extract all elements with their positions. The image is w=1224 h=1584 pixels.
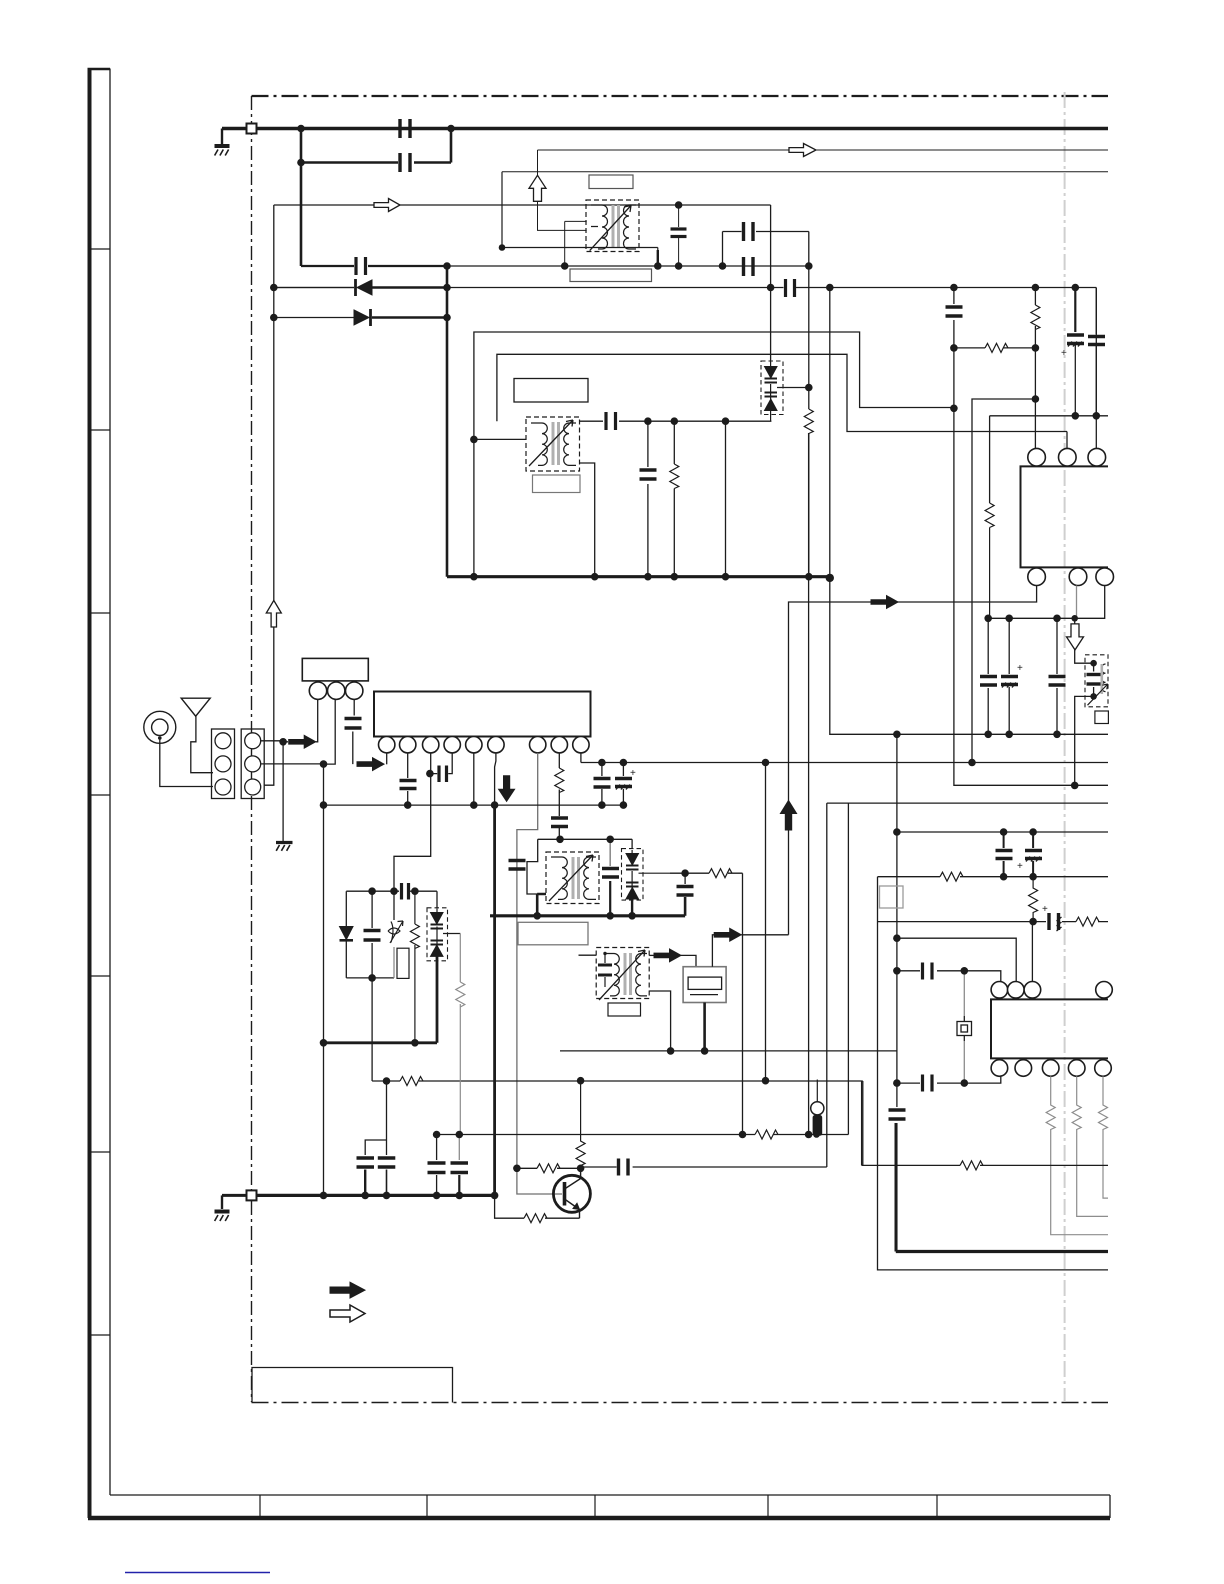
arrow solid up x788 — [780, 800, 796, 830]
dual diode D3 stack — [761, 361, 809, 421]
capacitor C29 x610 — [609, 839, 611, 866]
capacitor C9 shunt — [647, 421, 649, 577]
arrow solid right to U4 pin1 — [357, 758, 384, 771]
wire y891 row — [346, 891, 437, 908]
TUNERINPUT — [144, 658, 636, 1195]
wire IF loop outer — [474, 332, 954, 439]
wire vertical x301 thick — [300, 129, 303, 267]
capacitor C22 — [345, 719, 362, 729]
resistor R6 y877 — [940, 872, 963, 881]
PAGEFRAME — [88, 68, 1111, 1518]
wire y205 into T1 continues via x770 — [770, 205, 772, 363]
wire x1035 pin — [1034, 348, 1036, 449]
wire y978 row — [346, 977, 394, 979]
wire y399 jog — [972, 399, 1035, 763]
wire y618 caps row — [987, 618, 989, 734]
T4 secondary coil — [636, 954, 647, 996]
resistor R9 drop — [1046, 1076, 1108, 1234]
label box below T4 — [608, 1003, 641, 1016]
wire IF left thick vertical — [447, 575, 830, 578]
resistor R15 y1134 — [755, 1130, 778, 1139]
wire x848 drop — [847, 803, 849, 1134]
wire y602 left — [789, 602, 872, 935]
wire J1 to connector — [160, 738, 213, 787]
filter top lead2 — [712, 935, 716, 967]
wire T1 feed from y150 — [538, 150, 587, 266]
arrow solid down x506 — [499, 776, 515, 802]
legend arrow open — [330, 1305, 365, 1322]
capacitor C35 y1167 — [619, 1159, 629, 1176]
wire main thick top rail — [222, 127, 1108, 130]
connector CN2 — [241, 729, 264, 799]
capacitor C31 x436 — [436, 1135, 438, 1196]
connector CN1 — [212, 729, 235, 799]
wire y1080 rail — [372, 978, 863, 1166]
IC U2 top pins — [991, 982, 1008, 999]
wire y247 loop — [502, 172, 658, 266]
IC U1 top pin circles — [1028, 448, 1046, 466]
wire x386 drop — [365, 1081, 386, 1155]
filter FL1 box — [683, 967, 726, 1003]
svg-text:+: + — [1017, 861, 1023, 872]
T4 internal caps — [604, 954, 606, 988]
U3 pins — [309, 682, 326, 699]
wire U1 pin2 bottom gray — [1076, 586, 1078, 619]
ground bottom symbol — [215, 1212, 230, 1222]
wire filter out to x788 — [741, 934, 788, 936]
capacitor C2 on branch — [400, 153, 410, 172]
arrow open right on y205 — [374, 199, 400, 212]
frame left thick rule — [88, 68, 92, 1518]
transformer T1 dashed box — [586, 200, 639, 252]
wire U3 pin3 cap — [353, 700, 354, 765]
IC U1 bottom pin circles — [1028, 568, 1046, 586]
arrow solid right filter out — [714, 928, 741, 941]
wire x725 drop — [725, 421, 727, 577]
wire T3 primary top jog — [527, 839, 546, 894]
capacitor C30 x685 — [684, 873, 686, 884]
label box IF block — [514, 379, 588, 403]
diode D5 — [345, 891, 347, 978]
IFBLOCK — [447, 288, 1108, 735]
SECTIONBORDER — [252, 92, 1109, 1403]
transformer T2 dashed box — [526, 417, 580, 471]
T5 core bars — [1101, 664, 1104, 694]
resistor R20 y1218 — [524, 1214, 547, 1223]
wire y1051 rail — [560, 1050, 897, 1052]
resistor R16 x414 — [414, 891, 416, 1043]
wire U4 pin6 thick — [495, 753, 496, 805]
capacitor C13 — [980, 677, 997, 686]
wire T4 secondary bottom — [649, 991, 670, 1051]
T3 tuning arrow — [549, 855, 593, 901]
OSCILLATOR — [357, 433, 897, 1195]
T3 primary bottom thick — [537, 894, 546, 916]
resistor R10 drop — [1072, 1076, 1108, 1216]
T3 core bars — [572, 857, 575, 899]
T2 core bars — [552, 422, 555, 465]
T1 primary coil — [591, 205, 608, 249]
wire y873 row — [670, 873, 743, 1134]
wire T5 feed — [1075, 618, 1094, 785]
section border dash-dot left lower — [251, 1201, 253, 1402]
wire y762 rail — [581, 762, 1108, 764]
arrow solid right y602 — [871, 596, 898, 609]
T2 tuning arrow — [529, 420, 573, 466]
diode D1 row y287.5 — [274, 287, 354, 289]
thermistor TH1 — [811, 1102, 824, 1115]
legend arrow solid — [330, 1282, 365, 1298]
diode D2 row y317.5 — [274, 317, 354, 319]
wire y938 to U2 — [897, 938, 1016, 981]
capacitor C6 y266 — [744, 257, 754, 276]
trimmer VC1 — [393, 891, 395, 920]
wire y1167 row — [517, 1167, 827, 1168]
wire CN2 pin1 out — [261, 741, 288, 742]
ground top-left stem — [221, 129, 223, 145]
resistor R13 x559 — [555, 768, 564, 793]
ground CN2 symbol — [276, 843, 293, 851]
wire y416 — [990, 416, 1108, 503]
frame tick marks bottom — [260, 1495, 937, 1518]
resistor R3 x1035 — [1034, 288, 1036, 348]
transformer T5 dashed box — [1085, 655, 1108, 707]
wire U1 pin3 bottom — [988, 586, 1104, 619]
resistor R2 x808 — [808, 388, 810, 577]
section border dash-dot left — [251, 96, 253, 1190]
svg-text:+: + — [1061, 348, 1067, 359]
wire signal y150 — [538, 149, 1109, 151]
TOPLEFT components — [266, 119, 809, 627]
wire thick bottom rail y1195.4 — [257, 1194, 495, 1197]
wire thick y1042.8 — [324, 1041, 438, 1044]
IC U4 box — [374, 692, 591, 737]
frame top cap — [88, 68, 111, 71]
T4 tuning arrow — [599, 950, 645, 1000]
capacitor C21 y1083 — [923, 1075, 933, 1092]
wire x829 vertical — [830, 288, 1108, 735]
wire thick osc rail y915.8 — [490, 914, 685, 917]
capacitor C10 x953 — [953, 288, 955, 348]
filter bottom lead thick — [703, 1003, 706, 1051]
T4 core bars — [624, 953, 627, 995]
transistor Q1 — [553, 1175, 590, 1212]
resistor R19 x580 — [576, 1081, 585, 1169]
wire y921 rail — [878, 921, 1109, 923]
label box above T1 — [589, 175, 633, 189]
ground top symbol — [215, 146, 230, 156]
T1 tuning arrow — [590, 206, 631, 251]
wire U4 pin3 long — [394, 753, 431, 891]
wire U4 pin8 chain — [558, 753, 560, 839]
wire U4 pin5 — [473, 753, 475, 805]
wire x953 down — [954, 348, 1108, 786]
section border dash-dot bottom — [252, 1402, 1109, 1404]
crystal X1 — [963, 971, 965, 1083]
T5 tuning arrow — [1088, 684, 1108, 705]
wire T1 right to C4 — [639, 205, 679, 227]
electrolytic C18 x1033 — [1032, 832, 1034, 877]
capacitor C8 y421 — [606, 412, 616, 430]
RIGHTTOP — [780, 288, 1113, 935]
ground CN stem — [282, 742, 284, 842]
capacitor C16 x896 — [889, 1110, 906, 1119]
section border dash-dot top — [252, 95, 1109, 97]
wire y288 long — [274, 288, 1097, 416]
capacitor C5 y231 — [723, 232, 809, 267]
svg-text:+: + — [630, 768, 636, 779]
link underline blue — [125, 1572, 270, 1574]
connector square bottom — [247, 1190, 257, 1200]
wire U4 pin2 cap chain — [407, 753, 409, 805]
wire U1 pin1 bottom — [871, 586, 1037, 603]
resistor R4 y348 — [954, 347, 1036, 349]
svg-text:+: + — [1017, 663, 1023, 674]
capacitor C26 x559 — [551, 818, 568, 827]
transformer T4 dashed box — [596, 948, 649, 999]
label box right mid — [880, 886, 904, 908]
electrolytic C14 — [1008, 618, 1010, 734]
wire y1165 rail — [862, 1081, 1108, 1166]
T5 internal capacitor — [1087, 675, 1101, 685]
label box bottom — [252, 1368, 453, 1403]
T2 secondary coil — [564, 423, 576, 465]
wire signal y205 — [274, 204, 771, 206]
resistor R14 y873 — [709, 869, 732, 878]
resistor R7 x1033 — [1029, 877, 1038, 922]
wire y805 rail — [324, 804, 624, 806]
capacitor C3 on y266 — [356, 257, 366, 275]
wire emitter row y1218 — [495, 1195, 580, 1218]
resistor R11 drop — [1099, 1076, 1109, 1198]
wire y832 rail — [897, 831, 1108, 833]
capacitor C20 y971 — [923, 963, 933, 980]
electrolytic C19 y921 horizontal — [1049, 913, 1062, 931]
wire U4 pin1 stub — [386, 753, 388, 765]
arrow solid right to U3 — [289, 735, 316, 748]
resistor R12 y1165 — [960, 1161, 983, 1170]
connector square top — [247, 124, 257, 134]
label box osc block — [518, 922, 588, 945]
resistor R8 y921 — [1076, 917, 1099, 926]
capacitor C33 y891 — [402, 883, 409, 900]
resistor R5 x989 — [985, 503, 994, 618]
wire y877 rail — [878, 877, 1109, 1270]
wire pin3 x1096 — [1095, 416, 1097, 449]
wire y1134 row — [437, 1134, 849, 1136]
arrow open up T1 — [529, 175, 546, 201]
label box tall — [397, 948, 409, 978]
wire y803 rail — [827, 803, 1108, 1167]
wire y421 row — [580, 420, 772, 422]
fold crease line (light) — [1064, 92, 1066, 1402]
dual diode D4 stack — [622, 849, 671, 916]
capacitor C15 — [1056, 618, 1058, 734]
VARACTORBLOCK — [324, 883, 465, 1135]
wire T2 left feed — [474, 439, 526, 576]
frame left thin rule — [109, 69, 111, 1496]
IC U2 bottom pins — [991, 1060, 1008, 1077]
ground bottom stem — [221, 1195, 223, 1209]
arrow open down x1075 — [1067, 624, 1084, 650]
wire vertical x273 — [264, 205, 274, 785]
capacitor C32 x459 gray — [458, 1135, 460, 1161]
T1AREA — [274, 144, 1097, 416]
label box below T5 — [1095, 711, 1109, 724]
D6 bottom thick — [436, 956, 439, 1042]
capacitor C37 x386 — [378, 1158, 396, 1167]
capacitor C25 on pin7 line — [509, 861, 526, 870]
wire T2 secondary bottom to x594 — [580, 463, 595, 577]
T1 secondary coil — [624, 205, 637, 249]
dual diode D6 stack — [427, 908, 460, 961]
wire branch y162 — [301, 129, 451, 163]
arrow open up x273 — [266, 600, 281, 627]
RCA jack J1 — [144, 711, 176, 743]
arrow open right on y150 — [789, 144, 816, 157]
T3 primary coil — [551, 857, 567, 899]
wire T4 out right — [649, 954, 656, 956]
IC U3 box — [302, 658, 368, 681]
resistor R1 shunt — [673, 421, 675, 577]
capacitor C1 on top rail — [301, 119, 451, 138]
wire x808 down — [808, 266, 810, 387]
wire U2 pin x1033 — [1031, 922, 1033, 982]
capacitor C24 pins3-4 — [430, 753, 452, 774]
wire arrow to filter — [681, 955, 696, 966]
capacitor C34 x372 — [371, 891, 373, 978]
wire x896 vertical — [896, 734, 898, 1251]
T5 coil — [1101, 664, 1105, 692]
capacitor C27 x601 — [601, 763, 603, 806]
wire CN2 pin2 out — [261, 700, 336, 765]
wire U4 pin7 long gray — [517, 753, 562, 1194]
TOPBUS — [222, 124, 1108, 786]
wire thick bottom right y1251 — [896, 1250, 1108, 1253]
resistor R18 y1168 — [537, 1164, 560, 1173]
wire x765 drop — [765, 763, 767, 1081]
wire y266 — [301, 265, 447, 267]
IC U1 box — [1021, 466, 1109, 567]
capacitor C4 — [671, 229, 687, 237]
frame bottom thick rule — [88, 1516, 1110, 1521]
resistor R17 x460 gray — [459, 934, 461, 1135]
svg-text:+: + — [1042, 904, 1048, 915]
transformer T3 dashed box — [546, 852, 599, 904]
wire y971 to U2 pin1 — [897, 971, 1001, 981]
wire x323 vertical — [323, 764, 325, 1195]
wire arrow to U3 pin1 — [316, 700, 318, 742]
U4 bottom pins — [379, 737, 395, 753]
label box below T1 — [570, 269, 652, 282]
frame tick marks left — [88, 249, 110, 1335]
electrolytic C28 x623 — [622, 763, 624, 806]
wire IF loop inner — [497, 354, 1067, 448]
antenna ANT1 — [181, 698, 210, 716]
resistor R21 y1081 — [400, 1077, 423, 1086]
TRANSISTORAREA — [495, 1081, 827, 1223]
capacitor C17 x1003 — [1003, 832, 1005, 877]
T1 core bars — [612, 205, 615, 247]
wire y785 rail — [954, 784, 1108, 786]
capacitor C7 y288 — [786, 279, 795, 297]
arrow solid right T4 — [654, 949, 681, 962]
wire T4 left stub — [579, 954, 597, 956]
electrolytic C11 x1075 — [1074, 288, 1076, 333]
T2 primary coil — [531, 423, 547, 465]
RIGHTMID rails — [581, 734, 1112, 1270]
wire y839 row — [538, 839, 632, 848]
wire signal y172 — [502, 171, 1108, 173]
wire x808 lower — [808, 433, 810, 1135]
IC U2 box — [991, 999, 1108, 1058]
capacitor C36 x365 — [357, 1158, 375, 1167]
wire vertical x447 thick — [446, 266, 449, 577]
frame bottom right end — [1109, 1495, 1111, 1518]
T3 secondary coil — [584, 857, 596, 899]
T4 primary coil — [605, 954, 619, 996]
wire y1083 to U2 bottom pin1 — [897, 1076, 1001, 1083]
frame bottom thin rule — [110, 1494, 1110, 1496]
label box below T2 — [533, 475, 581, 493]
wire U4 pin9 rail stub — [580, 753, 582, 763]
capacitor C12 x1096 — [1095, 288, 1097, 416]
BOTTOMAREA — [125, 146, 495, 1573]
capacitor C23 — [400, 781, 417, 789]
